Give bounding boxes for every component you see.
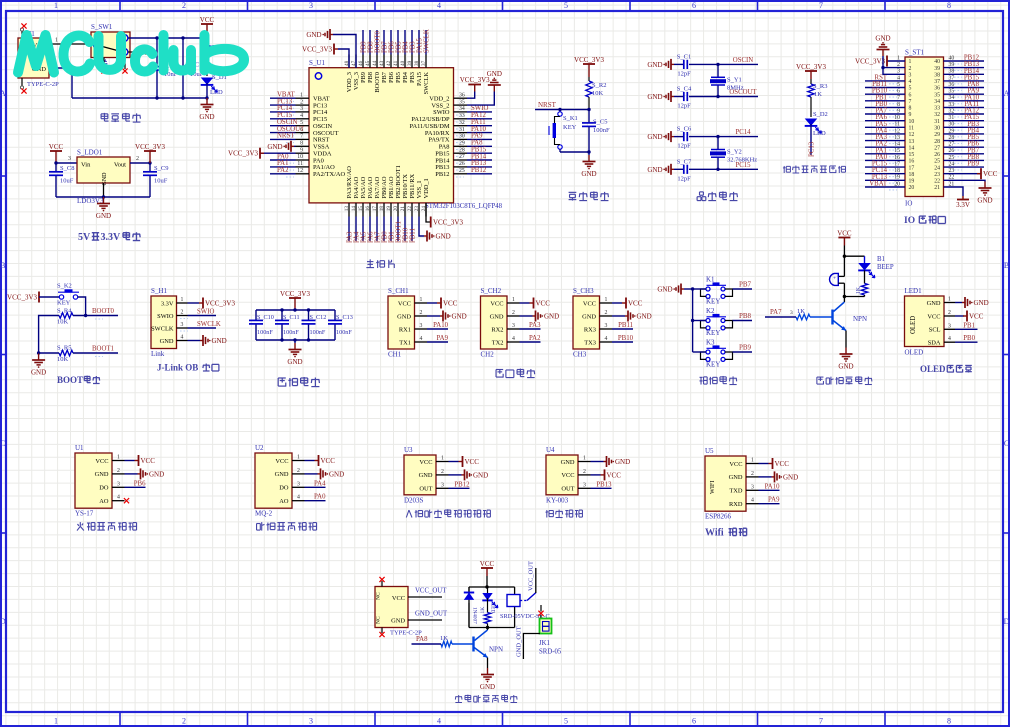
svg-text:VCC_3V3: VCC_3V3 bbox=[205, 300, 235, 308]
svg-text:+: + bbox=[833, 276, 836, 282]
svg-text:22: 22 bbox=[934, 179, 940, 185]
svg-text:1: 1 bbox=[297, 455, 300, 461]
svg-text:GND: GND bbox=[647, 133, 662, 141]
wire SDA bbox=[955, 341, 978, 343]
wire pin 23 bbox=[944, 173, 981, 175]
svg-text:Vout: Vout bbox=[114, 162, 126, 169]
wire pin 37 bbox=[425, 30, 427, 55]
svg-text:K1: K1 bbox=[706, 276, 715, 284]
pin 11 stub bbox=[296, 166, 310, 168]
wire R2 to node bbox=[588, 97, 590, 110]
svg-text:2: 2 bbox=[182, 1, 186, 10]
svg-text:29: 29 bbox=[934, 132, 940, 138]
svg-text:KEY: KEY bbox=[563, 124, 577, 131]
svg-text:SCL: SCL bbox=[929, 327, 941, 334]
pin 10 stub bbox=[296, 159, 310, 161]
wire pin 3 bbox=[449, 487, 470, 489]
wire pin 1 bbox=[449, 461, 459, 463]
wire pin 2 bbox=[612, 315, 625, 317]
wire pin 30 bbox=[467, 138, 492, 140]
svg-text:12pF: 12pF bbox=[677, 143, 691, 150]
wire pin 1 bbox=[612, 302, 622, 304]
svg-text:VDD_3: VDD_3 bbox=[346, 72, 353, 92]
svg-text:VCC: VCC bbox=[49, 143, 64, 151]
transistor Q2 NPN bbox=[474, 637, 504, 658]
svg-text:3: 3 bbox=[512, 323, 515, 329]
wire bottom rail bbox=[844, 296, 864, 298]
svg-text:PB10/TX: PB10/TX bbox=[402, 174, 409, 199]
svg-text:S_C7: S_C7 bbox=[677, 158, 692, 165]
svg-text:3: 3 bbox=[441, 482, 444, 488]
svg-text:K2: K2 bbox=[706, 307, 715, 315]
svg-text:100nF: 100nF bbox=[310, 329, 326, 336]
svg-text:GND: GND bbox=[436, 233, 451, 241]
svg-text:PB10: PB10 bbox=[618, 335, 634, 342]
svg-text:34: 34 bbox=[459, 106, 465, 112]
pin 2 stub bbox=[436, 474, 449, 476]
pin 25 stub bbox=[454, 173, 468, 175]
pin 27 stub bbox=[454, 159, 468, 161]
power port VCC bbox=[622, 298, 643, 309]
svg-text:31: 31 bbox=[459, 127, 465, 133]
pin 7 stub bbox=[296, 138, 310, 140]
svg-text:12: 12 bbox=[909, 132, 915, 138]
svg-text:8: 8 bbox=[947, 717, 951, 726]
wire pins 2,3 to GND bbox=[883, 56, 905, 74]
svg-text:PB9: PB9 bbox=[360, 72, 367, 83]
wire pin 9 bbox=[865, 113, 905, 115]
svg-text:BOOT: BOOT bbox=[57, 375, 83, 385]
wire pin 2 bbox=[759, 476, 772, 478]
svg-text:20: 20 bbox=[393, 206, 399, 212]
title 按键电路 bbox=[699, 377, 707, 385]
svg-text:8: 8 bbox=[947, 1, 951, 10]
wire pin 3 bbox=[305, 486, 326, 488]
svg-text:KEY: KEY bbox=[706, 298, 720, 306]
svg-text:4: 4 bbox=[909, 79, 912, 85]
wire LDO GND pin bbox=[103, 183, 105, 197]
wire bbox=[733, 320, 753, 322]
resistor S_R1 1K bbox=[204, 38, 226, 58]
wire pin 2 bbox=[449, 474, 462, 476]
svg-text:PB11: PB11 bbox=[618, 322, 633, 329]
svg-text:8: 8 bbox=[909, 106, 912, 112]
wire pin 3 bbox=[270, 111, 296, 113]
svg-text:GND: GND bbox=[473, 471, 488, 479]
svg-text:1: 1 bbox=[181, 297, 184, 303]
power port VCC bbox=[49, 143, 64, 163]
capacitor S_C12 100nF bbox=[302, 310, 327, 340]
wire pin 43 bbox=[383, 30, 385, 55]
svg-text:PB7: PB7 bbox=[381, 71, 388, 83]
ground bbox=[199, 98, 214, 121]
capacitor S_C9 10uF bbox=[143, 163, 168, 197]
svg-text:PA7/AO: PA7/AO bbox=[374, 176, 381, 198]
svg-text:4: 4 bbox=[605, 336, 608, 342]
pin 1 stub bbox=[944, 302, 955, 304]
ground bbox=[604, 456, 631, 467]
svg-text:2: 2 bbox=[441, 469, 444, 475]
svg-text:PB4: PB4 bbox=[402, 41, 409, 53]
pin 12 stub bbox=[296, 173, 310, 175]
svg-text:PA6/AO: PA6/AO bbox=[367, 176, 374, 198]
wire PC14 bbox=[718, 136, 758, 138]
title 继电器控制电路 bbox=[455, 695, 462, 702]
LED D5 bbox=[482, 587, 498, 613]
pin 16 stub bbox=[369, 203, 371, 217]
wire VCC to Vin bbox=[56, 162, 77, 164]
svg-text:BOOT0: BOOT0 bbox=[92, 308, 115, 315]
svg-text:1: 1 bbox=[54, 1, 58, 10]
power port VCC_3V3 bbox=[135, 143, 165, 163]
svg-text:S_R3: S_R3 bbox=[813, 83, 827, 90]
wire pin 1 bbox=[125, 460, 135, 462]
svg-text:3: 3 bbox=[751, 484, 754, 490]
svg-text:30: 30 bbox=[459, 134, 465, 140]
svg-text:2: 2 bbox=[420, 310, 423, 316]
svg-text:CH1: CH1 bbox=[388, 351, 402, 359]
svg-text:VCC: VCC bbox=[628, 300, 643, 308]
wire SWIO bbox=[188, 315, 217, 317]
pin 37 stub bbox=[425, 55, 427, 68]
svg-text:15: 15 bbox=[358, 206, 364, 212]
svg-text:GND: GND bbox=[647, 93, 662, 101]
svg-text:D: D bbox=[1004, 617, 1010, 626]
svg-text:7: 7 bbox=[909, 99, 912, 105]
svg-text:S_LDO1: S_LDO1 bbox=[77, 149, 103, 157]
svg-text:ESP8266: ESP8266 bbox=[705, 513, 732, 521]
wire SWCLK bbox=[188, 327, 217, 329]
svg-text:GND: GND bbox=[160, 338, 174, 345]
connector U5 ESP8266 bbox=[705, 447, 746, 521]
connector U3 D203S bbox=[404, 446, 436, 504]
wire pin 3 bbox=[125, 486, 146, 488]
pin 33 stub bbox=[454, 118, 468, 120]
pin 1 stub bbox=[415, 302, 428, 304]
svg-text:BOOT0: BOOT0 bbox=[374, 72, 381, 93]
svg-text:PB1/AO: PB1/AO bbox=[388, 176, 395, 198]
buzzer B1 BEEP bbox=[830, 256, 894, 285]
pin 3 stub bbox=[507, 328, 520, 330]
svg-text:S_CH3: S_CH3 bbox=[573, 287, 594, 295]
svg-text:27: 27 bbox=[934, 145, 940, 151]
wire left leg bbox=[468, 587, 470, 628]
ground bbox=[200, 335, 227, 346]
svg-text:13: 13 bbox=[909, 139, 915, 145]
svg-text:LED1: LED1 bbox=[905, 287, 923, 295]
pin 1 stub bbox=[578, 461, 591, 463]
svg-text:36: 36 bbox=[459, 92, 465, 98]
svg-text:2: 2 bbox=[117, 468, 120, 474]
svg-text:S_C13: S_C13 bbox=[336, 314, 353, 321]
pin 24 stub bbox=[425, 203, 427, 217]
pin 39 stub bbox=[411, 55, 413, 68]
wire bottom rail bbox=[56, 196, 150, 198]
pin 8 stub bbox=[296, 145, 310, 147]
svg-text:5: 5 bbox=[909, 86, 912, 92]
wire pin 2 bbox=[305, 473, 318, 475]
ground bbox=[647, 91, 674, 102]
svg-text:VCC: VCC bbox=[490, 300, 503, 307]
svg-text:NC: NC bbox=[376, 592, 382, 600]
svg-text:19: 19 bbox=[909, 179, 915, 185]
svg-text:VCC: VCC bbox=[465, 458, 480, 466]
svg-text:GND_OUT: GND_OUT bbox=[515, 626, 522, 657]
svg-text:PA0: PA0 bbox=[314, 494, 326, 501]
svg-text:40: 40 bbox=[400, 60, 406, 66]
wire pin 4 bbox=[305, 500, 326, 502]
wire collector bbox=[487, 628, 489, 631]
svg-text:VCC: VCC bbox=[480, 560, 495, 568]
pin 47 stub bbox=[355, 55, 357, 68]
relay coil SRD-05VDC-SL-C bbox=[500, 595, 550, 621]
wire pin 31 bbox=[944, 120, 985, 122]
pin 4 stub bbox=[944, 341, 955, 343]
svg-text:TX2: TX2 bbox=[492, 339, 504, 346]
pin 29 stub bbox=[454, 145, 468, 147]
power port VCC_3V3 bbox=[302, 44, 338, 55]
pin 3 stub bbox=[944, 328, 955, 330]
svg-text:PB0: PB0 bbox=[963, 335, 975, 342]
wire BOOT1 bbox=[73, 352, 118, 354]
svg-text:4: 4 bbox=[297, 495, 300, 501]
wire pin 34 bbox=[944, 100, 985, 102]
wire Vout to VCC_3V3 bbox=[130, 162, 150, 164]
pin 4 stub bbox=[112, 500, 125, 502]
svg-text:45: 45 bbox=[365, 60, 371, 66]
svg-text:VBAT: VBAT bbox=[869, 181, 888, 188]
wire pin 4 bbox=[612, 341, 633, 343]
connector S_CH3 CH3 bbox=[573, 287, 600, 359]
svg-text:2: 2 bbox=[300, 99, 303, 105]
pin 4 stub bbox=[415, 341, 428, 343]
wire pin 45 bbox=[369, 30, 371, 55]
svg-text:1: 1 bbox=[909, 59, 912, 65]
diode D4 1N4007 bbox=[464, 587, 478, 628]
wire pin 19 bbox=[390, 217, 392, 242]
wire SCL bbox=[955, 328, 978, 330]
wire pin 1 bbox=[427, 302, 437, 304]
svg-text:VCC: VCC bbox=[729, 461, 742, 468]
svg-text:GND: GND bbox=[582, 313, 596, 320]
svg-text:C: C bbox=[0, 439, 5, 448]
svg-text:4: 4 bbox=[948, 336, 951, 342]
title 烟雾检测模块 bbox=[257, 522, 265, 530]
op-amp U1 body bbox=[309, 59, 503, 210]
ground bbox=[480, 668, 495, 691]
power port VCC_3V3 bbox=[431, 217, 464, 228]
wire pin 22 bbox=[944, 180, 986, 181]
ground bbox=[138, 468, 165, 479]
connector U1 YS-17 bbox=[75, 444, 112, 518]
pin 9 stub bbox=[296, 152, 310, 154]
svg-text:5: 5 bbox=[564, 1, 568, 10]
svg-text:2: 2 bbox=[909, 66, 912, 72]
pin 38 stub bbox=[418, 55, 420, 68]
pin 23 stub bbox=[418, 203, 420, 217]
power port 3.3V bbox=[956, 196, 970, 209]
svg-text:VCC_3V3: VCC_3V3 bbox=[280, 290, 310, 298]
pin 48 stub bbox=[348, 55, 350, 68]
pin 1 stub bbox=[177, 302, 188, 304]
no-connect stub top bbox=[379, 577, 384, 587]
svg-text:2: 2 bbox=[948, 310, 951, 316]
svg-text:GND: GND bbox=[31, 369, 46, 377]
wire VSS_1 to GND bbox=[419, 217, 424, 237]
power port VCC bbox=[200, 16, 215, 38]
svg-text:3: 3 bbox=[605, 323, 608, 329]
ground bbox=[318, 468, 345, 479]
svg-text:1K: 1K bbox=[480, 607, 486, 614]
wire pin 30 bbox=[944, 126, 985, 128]
svg-text:SWIO: SWIO bbox=[197, 309, 214, 316]
wire JK1 pin2 GND_OUT bbox=[523, 634, 540, 660]
wire pin 26 bbox=[944, 153, 985, 155]
svg-text:1K: 1K bbox=[797, 308, 805, 315]
svg-text:8MHz: 8MHz bbox=[727, 85, 744, 92]
wire collector bbox=[843, 297, 845, 303]
svg-text:37: 37 bbox=[421, 60, 427, 66]
wire pin 15 bbox=[865, 153, 905, 155]
svg-text:PA2: PA2 bbox=[277, 167, 289, 174]
svg-text:25: 25 bbox=[934, 159, 940, 165]
svg-text:PA15: PA15 bbox=[416, 38, 423, 53]
svg-text:D: D bbox=[0, 617, 6, 626]
crystal S_Y1 8MHz bbox=[710, 64, 744, 96]
svg-text:S_Y1: S_Y1 bbox=[727, 77, 742, 84]
pin 3 stub bbox=[292, 486, 305, 488]
svg-text:VSS_3: VSS_3 bbox=[353, 72, 360, 90]
wire pin 27 bbox=[944, 146, 985, 148]
svg-text:STM32F103C8T6_LQFP48: STM32F103C8T6_LQFP48 bbox=[425, 203, 503, 210]
wire pin 39 bbox=[944, 67, 985, 69]
wire bbox=[693, 288, 706, 290]
wire bottom rail bbox=[469, 627, 515, 629]
svg-text:LED: LED bbox=[490, 603, 496, 613]
pin 2 stub bbox=[177, 315, 188, 317]
wire base bbox=[810, 316, 833, 318]
wire OSCOUT bbox=[718, 96, 758, 98]
resistor 1K bbox=[480, 598, 491, 627]
svg-text:PB12: PB12 bbox=[471, 167, 487, 174]
svg-text:PA3: PA3 bbox=[529, 322, 541, 329]
svg-text:B: B bbox=[0, 261, 5, 270]
connector S_H1 Link bbox=[151, 287, 177, 358]
svg-text:3: 3 bbox=[790, 310, 793, 316]
wire pin 4 bbox=[759, 503, 780, 505]
ground bbox=[462, 469, 489, 480]
wire pin 22 bbox=[411, 217, 413, 242]
svg-text:12pF: 12pF bbox=[677, 103, 691, 110]
resistor S_R2 10K bbox=[586, 77, 607, 97]
svg-text:PB3: PB3 bbox=[409, 72, 416, 83]
svg-text:PB2/BOOT1: PB2/BOOT1 bbox=[395, 165, 402, 198]
wire to ground bbox=[588, 152, 590, 155]
pin 1 stub bbox=[600, 302, 613, 304]
svg-text:GND: GND bbox=[419, 472, 433, 479]
pin 2 stub bbox=[112, 473, 125, 475]
svg-text:PA2: PA2 bbox=[529, 335, 541, 342]
wire pin 21 bbox=[944, 187, 964, 196]
svg-text:RX2: RX2 bbox=[491, 326, 503, 333]
wire pin 36 bbox=[944, 87, 985, 89]
svg-text:MQ-2: MQ-2 bbox=[255, 510, 273, 518]
svg-text:PB4: PB4 bbox=[402, 71, 409, 83]
svg-text:TXD: TXD bbox=[729, 488, 743, 495]
svg-text:6: 6 bbox=[909, 92, 912, 98]
wire bottom rail bbox=[256, 339, 335, 341]
svg-text:DO: DO bbox=[279, 485, 289, 492]
power port VCC_3V3 bbox=[280, 290, 310, 310]
svg-text:PB11: PB11 bbox=[409, 228, 416, 243]
svg-text:PB6: PB6 bbox=[134, 480, 146, 487]
switch K2 bbox=[701, 307, 733, 337]
wire bbox=[693, 320, 706, 322]
wire pin 20 bbox=[865, 186, 905, 188]
svg-text:3: 3 bbox=[909, 73, 912, 79]
svg-text:VCC_3V3: VCC_3V3 bbox=[302, 46, 332, 54]
svg-text:16: 16 bbox=[909, 159, 915, 165]
wire VSS_2 bbox=[467, 92, 494, 106]
pin 18 stub bbox=[383, 203, 385, 217]
svg-text:GND: GND bbox=[199, 113, 214, 121]
regulator S_LDO1 LDO3V3 bbox=[77, 149, 130, 206]
pin 15 stub bbox=[362, 203, 364, 217]
svg-text:1: 1 bbox=[605, 297, 608, 303]
wire bbox=[733, 351, 753, 353]
svg-text:GND: GND bbox=[490, 313, 504, 320]
svg-text:28: 28 bbox=[934, 139, 940, 145]
svg-text:1: 1 bbox=[948, 297, 951, 303]
svg-text:38: 38 bbox=[934, 73, 940, 79]
svg-text:26: 26 bbox=[934, 152, 940, 158]
svg-text:VCC_3V3: VCC_3V3 bbox=[574, 56, 604, 64]
pin 2 stub bbox=[507, 315, 520, 317]
wire GND_OUT bbox=[408, 619, 442, 621]
svg-text:2: 2 bbox=[512, 310, 515, 316]
wire SW1 pin3 right with no-connect bbox=[128, 51, 141, 53]
svg-text:11: 11 bbox=[909, 126, 915, 132]
svg-text:23: 23 bbox=[934, 172, 940, 178]
relay switch arm bbox=[527, 593, 536, 601]
svg-text:43: 43 bbox=[379, 60, 385, 66]
wire emitter to gnd bbox=[845, 331, 847, 348]
svg-text:PA4: PA4 bbox=[314, 480, 326, 487]
svg-text:VSS_1: VSS_1 bbox=[416, 180, 423, 198]
ground bbox=[287, 343, 302, 366]
svg-text:38: 38 bbox=[414, 60, 420, 66]
svg-text:U1: U1 bbox=[75, 444, 84, 452]
svg-text:16: 16 bbox=[365, 206, 371, 212]
svg-text:VCC: VCC bbox=[536, 300, 551, 308]
svg-text:NPN: NPN bbox=[853, 315, 867, 323]
svg-text:VCC: VCC bbox=[398, 300, 411, 307]
svg-text:39: 39 bbox=[407, 60, 413, 66]
svg-text:1N4007: 1N4007 bbox=[472, 607, 478, 624]
ground bbox=[647, 59, 674, 70]
svg-text:2: 2 bbox=[751, 471, 754, 477]
switch K1 bbox=[701, 276, 733, 306]
wire pin 14 bbox=[355, 217, 357, 242]
wire pin1 bbox=[955, 302, 962, 304]
capacitor S_C1 12pF bbox=[647, 53, 718, 77]
wire pin 5 bbox=[270, 125, 296, 127]
svg-text:GND: GND bbox=[637, 313, 652, 321]
svg-text:PB5: PB5 bbox=[395, 41, 402, 53]
wire VDD_2 bbox=[467, 92, 475, 99]
power port VCC_3V3 bbox=[796, 63, 826, 79]
svg-text:SWCLK: SWCLK bbox=[423, 72, 430, 95]
